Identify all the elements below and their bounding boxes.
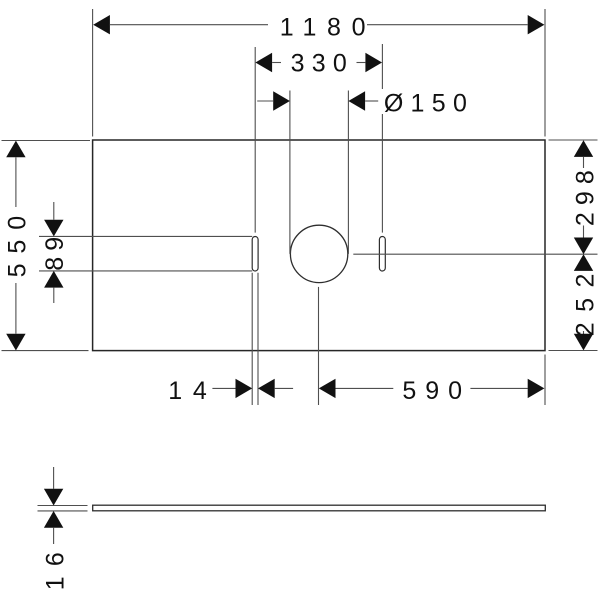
dim 252: bottom arrow: [574, 334, 593, 351]
dim 14: right slot-edge extension line: [257, 273, 259, 405]
basin tap hole circle D150: [290, 225, 347, 282]
dim 550: dimension line segments: [15, 157, 17, 207]
dim 298: top arrow: [574, 140, 593, 157]
dim 89: upper arrow (points down): [44, 220, 63, 237]
dim 16: bottom extension line: [38, 510, 88, 512]
svg-text:590: 590: [402, 377, 471, 405]
dim D150: left tangent extension line: [289, 91, 291, 254]
dim D150: left arrow (points right): [273, 91, 290, 110]
dim 16: lower line: [53, 528, 55, 544]
dim 590: line segments: [336, 387, 394, 389]
dim 330: left extension line (to left slot): [254, 47, 256, 233]
dim 298: line segments: [583, 157, 585, 168]
svg-text:550: 550: [3, 206, 31, 277]
dim 14: right arrow (points left): [258, 379, 275, 398]
svg-text:Ø150: Ø150: [384, 89, 474, 117]
dim 1180: left extension line: [92, 9, 94, 137]
dim 89: lower line: [53, 288, 55, 303]
dim D150: right arrow (points left): [348, 91, 365, 110]
svg-text:1180: 1180: [280, 13, 376, 41]
dim 590: centre extension line below hole: [318, 287, 320, 405]
dim 330: right arrow: [365, 53, 382, 72]
svg-text:14: 14: [168, 377, 217, 405]
dim 1180: right extension line: [544, 9, 546, 137]
side view: countertop plate 16 thick: [93, 505, 546, 511]
dim 1180: dimension line segments: [110, 24, 268, 26]
dim 14: left arrow (points right): [236, 379, 253, 398]
dim 550: top extension line: [2, 140, 91, 142]
dim 16: top extension line: [38, 505, 88, 507]
dim 330: dimension line segments: [272, 62, 281, 64]
dim 252: line segment: [583, 331, 585, 334]
dim 89: bottom extension line: [39, 270, 252, 272]
right mounting slot 14x89: [379, 237, 385, 272]
dim D150: left tail: [257, 100, 273, 102]
svg-text:16: 16: [41, 542, 69, 590]
dim 16: upper arrow (points down): [44, 489, 63, 506]
svg-text:330: 330: [291, 50, 354, 78]
svg-text:252: 252: [572, 263, 600, 336]
dim 550: bottom extension line: [2, 350, 89, 352]
dim 330: left arrow: [255, 53, 272, 72]
centre axis line through hole: [353, 253, 597, 255]
dim 89: lower arrow (points up): [44, 271, 63, 288]
dim 550: bottom arrow: [6, 334, 25, 351]
dim D150: right tail: [365, 100, 378, 102]
dim 1180: left arrow: [93, 15, 110, 34]
dim D150: right tangent extension line: [347, 91, 349, 254]
dim 89: top extension line: [39, 235, 252, 237]
dim 89: upper line: [53, 202, 55, 220]
dim 252: middle arrow (points up): [574, 254, 593, 271]
dim 252: bottom extension line: [549, 350, 598, 352]
dim 16: upper line: [53, 467, 55, 489]
dim 16: lower arrow (points up): [44, 511, 63, 528]
dim 14: right tail: [275, 387, 293, 389]
svg-text:89: 89: [41, 231, 69, 271]
dim 298: middle arrow (points down): [574, 238, 593, 255]
left mounting slot 14x89: [252, 237, 258, 272]
dim 590: right extension line: [544, 355, 546, 406]
dim 14: left slot-edge extension line: [251, 273, 253, 405]
countertop plan view outline 1180x550: [93, 140, 545, 351]
dim 330: right extension line (to right slot, broken at D150 text): [381, 44, 383, 89]
dim 590: right arrow: [528, 379, 545, 398]
dim 1180: right arrow: [528, 15, 545, 34]
dim 298: top extension line: [549, 139, 598, 141]
dim 550: top arrow: [6, 141, 25, 158]
svg-text:298: 298: [572, 163, 600, 226]
dim 590: left arrow: [319, 379, 336, 398]
dim 14: left tail: [212, 387, 236, 389]
